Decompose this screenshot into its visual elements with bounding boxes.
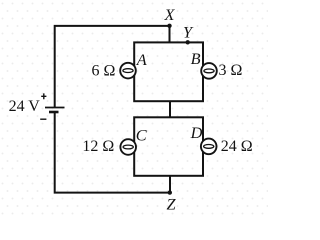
svg-text:6 Ω: 6 Ω (92, 62, 116, 79)
svg-text:3 Ω: 3 Ω (219, 62, 243, 79)
svg-text:D: D (190, 123, 203, 142)
svg-text:Z: Z (167, 195, 177, 214)
svg-text:X: X (164, 5, 176, 24)
svg-text:C: C (136, 125, 148, 144)
svg-text:24 V: 24 V (9, 98, 41, 115)
svg-text:24 Ω: 24 Ω (221, 138, 253, 155)
svg-text:A: A (136, 50, 147, 69)
svg-text:B: B (191, 49, 201, 68)
svg-text:12 Ω: 12 Ω (82, 138, 114, 155)
